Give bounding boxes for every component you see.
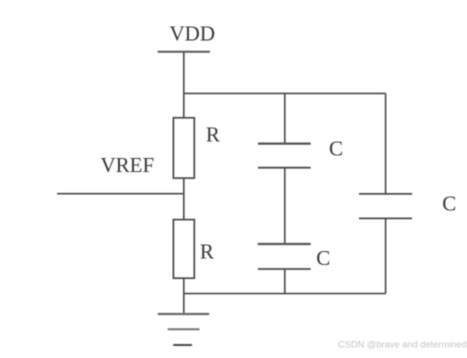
wire VDD bar to resistor R1 — [183, 52, 185, 118]
resistor R2 — [173, 220, 194, 279]
capacitor C2 — [258, 244, 311, 269]
capacitor C1 — [258, 144, 311, 168]
svg-text:CSDN @brave and determined: CSDN @brave and determined — [338, 339, 467, 349]
svg-text:C: C — [329, 137, 343, 161]
resistor R1 — [173, 118, 194, 178]
svg-text:C: C — [316, 246, 330, 270]
capacitor C3 — [359, 194, 412, 219]
wire bottom rail — [184, 293, 386, 295]
power VDD bar — [158, 51, 210, 53]
wire top rail to capacitor C3 — [385, 93, 387, 193]
wire R1 to R2 — [183, 178, 185, 220]
wire C3 to bottom rail — [385, 218, 387, 293]
wire C2 to bottom rail — [284, 269, 286, 294]
svg-text:VREF: VREF — [101, 153, 155, 177]
ground — [158, 314, 209, 345]
svg-text:R: R — [200, 239, 214, 263]
svg-text:C: C — [442, 191, 456, 215]
wire top rail to capacitor C1 — [284, 93, 286, 143]
svg-text:R: R — [206, 122, 220, 146]
wire C1 to C2 — [284, 168, 286, 244]
wire top rail — [184, 92, 386, 94]
wire VREF — [57, 193, 184, 195]
wire R2 to ground — [183, 278, 185, 314]
svg-text:VDD: VDD — [170, 22, 216, 46]
